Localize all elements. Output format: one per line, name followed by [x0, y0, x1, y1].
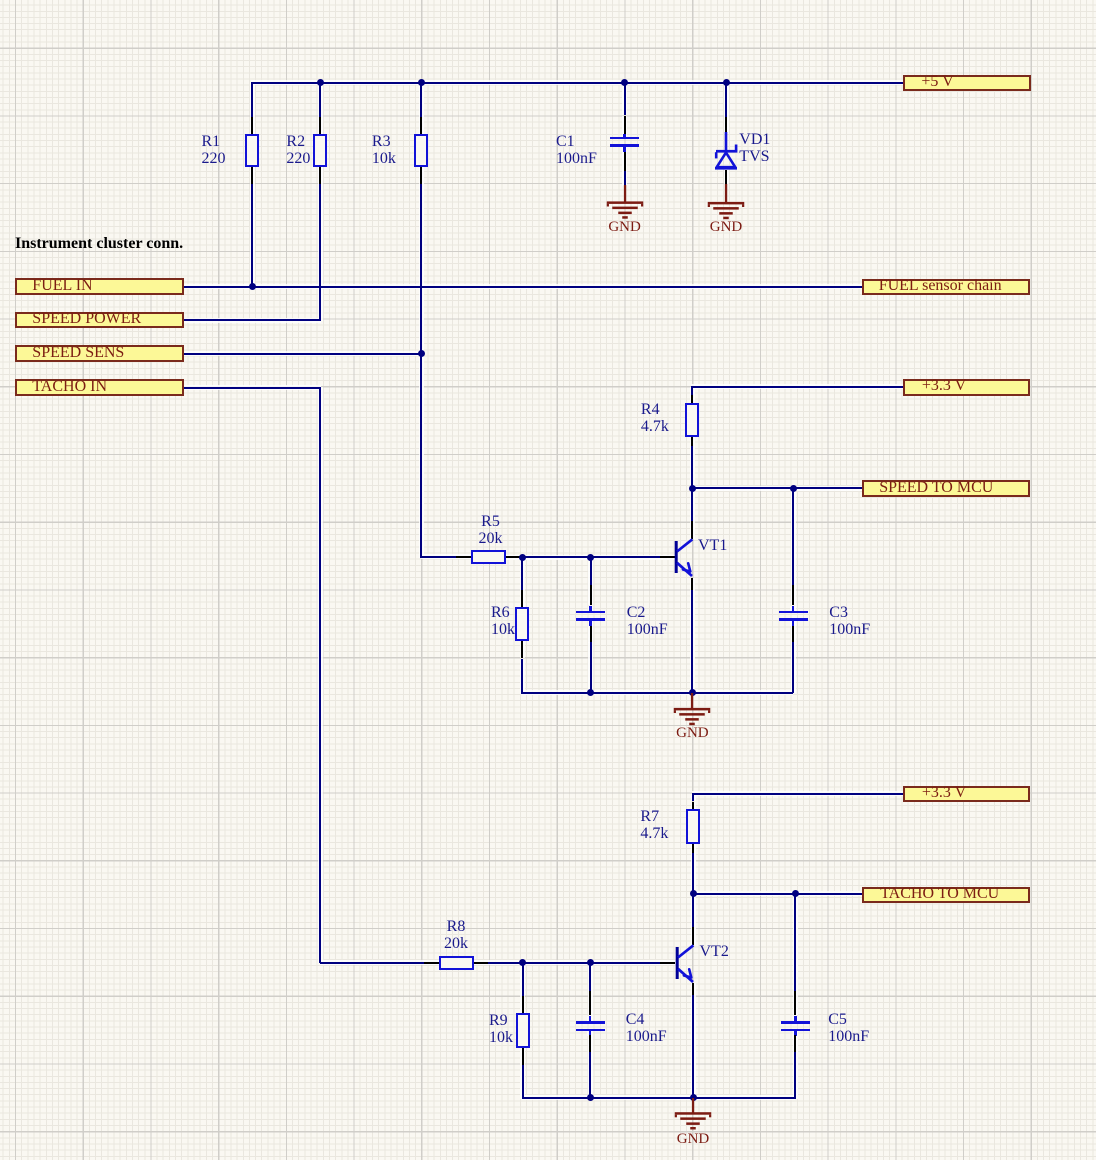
junction C3 tap [790, 485, 797, 492]
R8 label [423, 918, 489, 952]
capacitor C5 plates [781, 1021, 810, 1024]
capacitor C4 plates [576, 1021, 605, 1024]
R1 pin 2 [251, 167, 253, 184]
C4 bottom wire [589, 1052, 591, 1098]
junction R1/FUEL IN [249, 283, 256, 290]
C3 bottom wire [792, 642, 794, 694]
C4 plate stub 2 [589, 1031, 592, 1036]
junction C4 tap [587, 959, 594, 966]
C2 label [627, 604, 668, 638]
C1 label [556, 133, 597, 167]
wire gnd rail 1 [521, 692, 793, 694]
junction C1/+5V [621, 79, 628, 86]
junction VT1 collector node [689, 485, 696, 492]
wire VT1 base net [521, 556, 660, 558]
C1 top wire [624, 83, 626, 116]
C4 pin 1 [589, 991, 591, 1016]
R7 label [640, 808, 668, 842]
C5 plate stub [794, 1016, 797, 1021]
R7 pin 2 [692, 844, 694, 853]
wire +5V rail [251, 82, 903, 84]
C3 plate stub [792, 606, 795, 611]
resistor R1 body [245, 134, 259, 167]
R4 pin 1 [691, 395, 693, 403]
R8 pin 2 [474, 962, 489, 964]
R1 bottom wire [251, 184, 253, 288]
transistor VT1 [664, 530, 698, 590]
wire TACHO IN vertical [319, 387, 321, 963]
VT2 collector wire [692, 894, 694, 927]
R6 label [491, 604, 515, 638]
R6 pin 1 [521, 590, 523, 607]
port SPEED TO MCU [862, 480, 1030, 496]
R4 top wire [691, 387, 693, 395]
resistor R3 body [414, 134, 428, 167]
VT2 emitter wire [692, 995, 694, 1098]
C1 plate stub [623, 134, 626, 137]
wire TACHO TO MCU net [693, 893, 862, 895]
C2 plate stub 2 [589, 621, 592, 626]
R9 pin 2 [522, 1048, 524, 1065]
R9 bottom wire [522, 1065, 524, 1099]
C3 pin 2 [792, 626, 794, 643]
R9 top wire [522, 963, 524, 997]
R7 top wire [692, 794, 694, 802]
resistor R8 body [439, 956, 474, 970]
junction VT2 collector node [690, 890, 697, 897]
VD1 pin 2 [725, 170, 727, 184]
capacitor C3 plates [779, 611, 808, 614]
C4 top wire [589, 963, 591, 991]
port +3.3 V (2) [903, 786, 1030, 802]
C2 pin 2 [590, 626, 592, 643]
R9 label [489, 1012, 513, 1046]
C1 plate stub 2 [623, 147, 626, 153]
note Instrument cluster conn. [15, 235, 183, 252]
C3 pin 1 [792, 585, 794, 605]
wire TACHO IN net [184, 387, 321, 389]
C4 pin 2 [589, 1035, 591, 1052]
resistor R5 body [471, 550, 506, 564]
C5 pin 2 [794, 1035, 796, 1052]
junction C2/gnd rail [587, 689, 594, 696]
resistor R9 body [516, 1013, 530, 1047]
C1 bottom wire [624, 171, 626, 186]
resistor R7 body [686, 809, 700, 844]
C3 top wire [792, 488, 794, 585]
C3 label [829, 604, 870, 638]
wire SPEED POWER net [184, 319, 321, 321]
R2 bottom wire [319, 184, 321, 321]
C4 plate stub [589, 1016, 592, 1021]
ground GND (VT2) [673, 1098, 713, 1133]
R4 pin 2 [691, 437, 693, 446]
wire FUEL IN net [184, 286, 862, 288]
ground GND (VT2) text [671, 1131, 715, 1147]
junction R2/+5V [317, 79, 324, 86]
junction VT1 emitter/gnd rail [689, 689, 696, 696]
R5 pin 2 [506, 556, 521, 558]
R2 top wire [319, 83, 321, 117]
C1 pin 1 [624, 116, 626, 135]
VT2 label [700, 943, 729, 960]
ground GND (VD1) text [704, 219, 748, 235]
R8 pin 1 [424, 962, 439, 964]
R3 top wire [420, 83, 422, 117]
wire +3.3V rail 1 [691, 386, 903, 388]
VT1 emitter pin [691, 578, 693, 590]
R2 label [286, 133, 310, 167]
C4 label [626, 1011, 667, 1045]
port SPEED SENS [15, 345, 184, 362]
VT2 base pin [660, 962, 675, 964]
wire gnd rail 2 [522, 1097, 796, 1099]
R2 pin 2 [319, 167, 321, 184]
port TACHO TO MCU [862, 887, 1030, 903]
C2 top wire [590, 557, 592, 585]
R4 label [641, 401, 669, 435]
R1 top wire [251, 82, 253, 117]
R6 pin 2 [521, 641, 523, 658]
capacitor C1 plates [610, 137, 639, 140]
junction VD1/+5V [723, 79, 730, 86]
port +5 V [903, 75, 1030, 91]
junction R3/+5V [418, 79, 425, 86]
junction VT2 emitter/gnd rail [690, 1094, 697, 1101]
ground GND (C1) [605, 185, 645, 220]
resistor R4 body [685, 403, 699, 437]
VD1 top wire [725, 83, 727, 117]
diode VD1 (TVS) [706, 132, 746, 172]
VT1 collector wire [691, 488, 693, 521]
ground GND (VD1) [706, 184, 746, 221]
R3 pin 1 [420, 117, 422, 134]
resistor R2 body [313, 134, 327, 167]
VT1 base pin [660, 556, 675, 558]
junction C2 tap [587, 554, 594, 561]
C2 bottom wire [590, 642, 592, 693]
VD1 label [739, 131, 770, 165]
R7 bottom wire [692, 853, 694, 894]
C5 pin 1 [794, 991, 796, 1016]
R6 bottom wire [521, 659, 523, 694]
junction C4/gnd rail [587, 1094, 594, 1101]
R2 pin 1 [319, 117, 321, 134]
R3 pin 2 [420, 167, 422, 184]
VD1 pin 1 [725, 117, 727, 134]
capacitor C2 plates [576, 611, 605, 614]
R9 pin 1 [522, 996, 524, 1013]
port SPEED POWER [15, 312, 184, 329]
junction R3/SPEED SENS [418, 350, 425, 357]
ground GND (VT1) text [670, 725, 714, 741]
wire SPEED SENS net [184, 353, 421, 355]
junction R9 tap [519, 959, 526, 966]
C2 plate stub [589, 606, 592, 611]
wire to R5 [421, 556, 456, 558]
C5 label [828, 1011, 869, 1045]
VT2 collector pin [692, 927, 694, 945]
C3 plate stub 2 [792, 621, 795, 626]
wire VT2 base net [488, 962, 660, 964]
C2 pin 1 [590, 585, 592, 605]
R3 label [372, 133, 396, 167]
wire halo underlay (decorative) [251, 80, 903, 85]
junction C5 tap [792, 890, 799, 897]
VT1 collector pin [691, 521, 693, 539]
VT2 emitter pin [692, 983, 694, 995]
VT1 emitter wire [691, 590, 693, 694]
C1 pin 2 [624, 152, 626, 171]
C5 plate stub 2 [794, 1031, 797, 1036]
wire to R8 [320, 962, 424, 964]
R3 bottom wire / SPEED SENS net [420, 184, 422, 558]
port FUEL sensor chain [862, 279, 1030, 295]
port FUEL IN [15, 278, 184, 294]
transistor VT2 [665, 936, 699, 996]
R5 pin 1 [456, 556, 471, 558]
port +3.3 V (1) [903, 379, 1029, 396]
R5 label [458, 513, 524, 547]
wire +3.3V rail 2 [692, 793, 903, 795]
R6 top wire [521, 557, 523, 590]
wire SPEED TO MCU net [692, 487, 861, 489]
junction R6 tap [519, 554, 526, 561]
ground GND (VT1) [672, 693, 712, 728]
R4 bottom wire [691, 446, 693, 488]
ground GND (C1) text [603, 219, 647, 235]
R1 label [202, 133, 226, 167]
C5 top wire [794, 894, 796, 991]
resistor R6 body [515, 607, 529, 642]
port TACHO IN [15, 379, 184, 396]
C5 bottom wire [794, 1052, 796, 1099]
R1 pin 1 [251, 117, 253, 134]
R7 pin 1 [692, 802, 694, 810]
VT1 label [698, 537, 727, 554]
